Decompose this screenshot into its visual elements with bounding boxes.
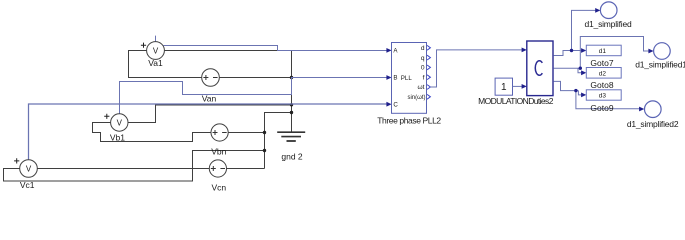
- junction node Vc1-neutral2: [263, 149, 266, 152]
- svg-text:Goto8: Goto8: [590, 80, 613, 90]
- svg-text:V: V: [117, 119, 123, 128]
- arrowhead PLL input B: [386, 75, 391, 80]
- svg-text:ωt: ωt: [418, 84, 425, 91]
- PLL output port sin(wt): [427, 94, 430, 99]
- PLL output port d: [427, 45, 430, 50]
- svg-text:Vcn: Vcn: [211, 182, 226, 192]
- wire Va1 right to ground vertical: [164, 51, 291, 132]
- PLL output port wt: [427, 85, 430, 90]
- wire Vb1 right to neutral node: [128, 105, 292, 123]
- arrowhead PLL input C: [386, 102, 391, 107]
- svg-text:Vb1: Vb1: [110, 132, 125, 142]
- svg-text:Goto7: Goto7: [590, 58, 613, 68]
- signal wire C out3 to goto d3: [554, 81, 576, 90]
- goto block d3: [586, 90, 621, 100]
- PLL output port f: [427, 75, 430, 80]
- svg-text:C: C: [393, 102, 398, 109]
- svg-text:f: f: [423, 74, 425, 81]
- constant block 1: [495, 78, 512, 95]
- svg-text:1: 1: [501, 82, 507, 93]
- junction node Vb1-neutral: [290, 103, 293, 106]
- wire Van minus to neutral node: [219, 77, 291, 79]
- signal wire C out2 to goto d2: [554, 67, 581, 69]
- svg-text:0: 0: [421, 65, 425, 72]
- signal wire Va1 to PLL input A: [164, 46, 390, 51]
- svg-text:gnd 2: gnd 2: [281, 152, 303, 162]
- svg-text:MODULATIONDuties2: MODULATIONDuties2: [478, 96, 554, 106]
- svg-text:Vbn: Vbn: [211, 147, 226, 157]
- ground gnd 2: [277, 132, 305, 141]
- wire neutral2 vertical to ground node: [265, 113, 292, 169]
- wire Vbn minus to neutral2: [228, 132, 264, 134]
- voltmeter Vb1: [104, 114, 128, 132]
- arrowhead goto d1: [581, 48, 586, 53]
- signal wire PLL wt output to C block: [431, 50, 525, 87]
- svg-text:PLL: PLL: [401, 75, 413, 82]
- signal stub Va1 top port: [155, 36, 157, 42]
- junction node neutral2-ground: [290, 111, 293, 114]
- ac source Van: [202, 69, 220, 87]
- junction dot out1: [570, 49, 573, 52]
- svg-text:B: B: [393, 75, 397, 82]
- svg-text:d2: d2: [599, 71, 607, 78]
- arrowhead d1_simplified1: [648, 49, 653, 54]
- svg-text:d1_simplified1: d1_simplified1: [635, 59, 685, 69]
- wire Vcn minus to neutral2: [227, 168, 265, 170]
- scope d1_simplified1: [654, 43, 671, 60]
- svg-text:Goto9: Goto9: [590, 103, 613, 113]
- voltmeter Vc1: [14, 158, 37, 177]
- wire Vb1 left to Vbn plus: [93, 123, 212, 142]
- svg-text:V: V: [26, 165, 32, 174]
- svg-text:Three phase PLL2: Three phase PLL2: [377, 116, 441, 126]
- wire Vc1 right to Vcn plus: [37, 168, 209, 170]
- junction dot out3: [574, 89, 577, 92]
- arrowhead d1_simplified: [595, 8, 600, 13]
- signal branch to d1_simplified1 scope: [580, 37, 651, 69]
- goto block d1: [586, 45, 621, 56]
- junction dot out2: [579, 67, 582, 70]
- signal wire Vb1 to PLL input B: [120, 78, 390, 115]
- arrowhead PLL input A: [386, 48, 391, 53]
- svg-text:sin(ωt): sin(ωt): [407, 95, 425, 101]
- svg-text:V: V: [153, 47, 159, 56]
- junction node Van-neutral: [290, 76, 293, 79]
- svg-text:d1_simplified: d1_simplified: [584, 19, 631, 29]
- svg-text:Van: Van: [202, 93, 217, 103]
- arrowhead C block input 2: [522, 84, 527, 89]
- junction node Vbn-neutral2: [263, 131, 266, 134]
- arrowhead goto d3: [581, 93, 586, 98]
- signal branch to d1_simplified scope: [572, 10, 598, 50]
- PLL output port 0: [427, 65, 430, 70]
- signal wire C out1 to goto d1: [554, 51, 584, 56]
- scope d1_simplified: [600, 2, 617, 19]
- wire Va1 left to Van plus: [129, 51, 203, 78]
- MATLAB function block C MODULATIONDuties2: [527, 41, 553, 96]
- wire Vc1 left to neutral2: [4, 151, 265, 182]
- scope d1_simplified2: [645, 101, 662, 118]
- svg-text:d3: d3: [599, 93, 607, 100]
- signal wire constant to C block: [513, 85, 525, 87]
- PLL output port q: [427, 55, 430, 60]
- svg-text:d: d: [421, 45, 425, 52]
- ac source Vcn: [209, 160, 226, 177]
- PLL block U1 Three phase PLL2: [392, 43, 427, 114]
- voltmeter Va1: [141, 42, 165, 60]
- svg-text:Vc1: Vc1: [20, 180, 35, 190]
- svg-text:d1_simplified2: d1_simplified2: [627, 119, 679, 129]
- arrowhead goto d2: [581, 70, 586, 75]
- arrowhead C block input 1: [522, 48, 527, 53]
- arrowhead d1_simplified2: [639, 107, 644, 112]
- goto block d2: [586, 68, 621, 79]
- svg-text:d1: d1: [599, 48, 607, 55]
- svg-text:Va1: Va1: [148, 58, 163, 68]
- signal branch to d1_simplified2 scope: [576, 91, 642, 109]
- svg-text:q: q: [421, 55, 425, 62]
- ac source Vbn: [211, 124, 228, 141]
- signal wire Vc1 to PLL input C: [29, 104, 390, 160]
